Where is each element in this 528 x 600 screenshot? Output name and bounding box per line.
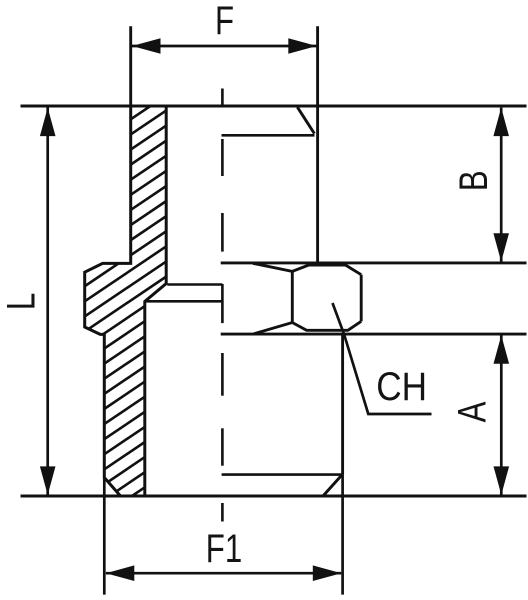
bore step lower line — [146, 300, 222, 303]
bore step upper line — [167, 283, 222, 286]
upper body left edge / F left extension (above section) — [129, 26, 132, 106]
top thread chamfer circle line — [222, 134, 315, 137]
hex bottom chamfer curve — [254, 321, 362, 334]
top right chamfer silhouette — [297, 107, 314, 133]
upper body right edge / F right extension — [316, 26, 319, 263]
hex top line — [221, 261, 527, 264]
bottom right chamfer silhouette — [323, 475, 342, 496]
F1 extension lines — [103, 478, 106, 595]
bottom face line — [21, 495, 527, 498]
hatching of section — [60, 0, 240, 600]
hex top chamfer curve — [253, 263, 361, 274]
bottom thread chamfer circle line — [222, 473, 343, 476]
svg-text:F1: F1 — [206, 526, 242, 571]
hex front flat edge — [291, 271, 294, 322]
dimension B — [493, 108, 509, 262]
dimension F — [132, 38, 317, 54]
svg-text:L: L — [0, 293, 44, 310]
hex bottom line — [221, 333, 527, 336]
svg-text:CH: CH — [376, 364, 427, 409]
svg-text:F: F — [215, 0, 234, 43]
svg-text:B: B — [451, 170, 496, 191]
center line (dashed) — [221, 89, 224, 522]
svg-text:A: A — [450, 402, 495, 423]
CH leader line — [333, 303, 432, 414]
lower body right edge — [341, 334, 344, 475]
dimension L — [40, 107, 56, 495]
dimension A — [494, 335, 510, 495]
hex right silhouette edge — [360, 275, 363, 322]
section outline (cut profile, left half) — [85, 106, 167, 496]
hex face (external view right half) — [253, 263, 361, 334]
top face line — [21, 105, 527, 108]
dimension F1 — [104, 475, 342, 595]
